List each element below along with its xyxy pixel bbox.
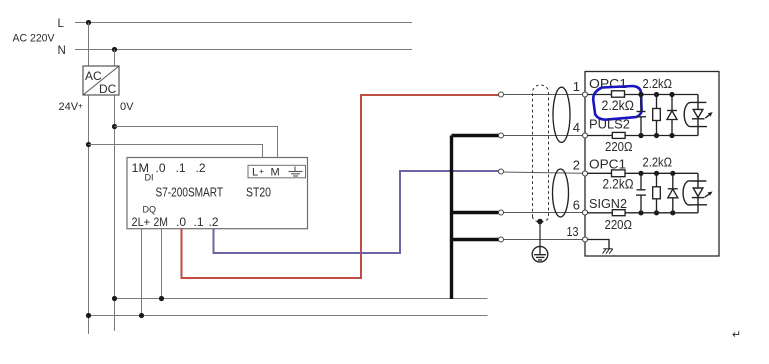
svg-text:AC 220V: AC 220V <box>13 33 56 45</box>
svg-text:N: N <box>58 45 66 57</box>
svg-text:L: L <box>252 167 258 179</box>
node 0V to M tap <box>112 124 117 129</box>
svg-text:2M: 2M <box>154 215 169 229</box>
converter AC/DC <box>83 66 119 96</box>
wire top rail pin2 <box>585 172 698 174</box>
connector circles mid-span <box>499 92 504 242</box>
svg-text:0V: 0V <box>120 101 134 113</box>
PLC S7-200SMART box <box>127 158 308 230</box>
svg-text:SIGN2: SIGN2 <box>589 196 627 211</box>
wire 2M down <box>161 229 163 299</box>
node 2L+ to bus <box>139 313 144 318</box>
node 2M to bus <box>159 296 164 301</box>
svg-text:.2: .2 <box>209 215 219 229</box>
svg-text:.2: .2 <box>196 161 206 175</box>
svg-text:2.2kΩ: 2.2kΩ <box>602 98 635 113</box>
wire bottom rail pin6 <box>585 212 698 214</box>
svg-text:DQ: DQ <box>143 205 157 215</box>
connector circles at drive box edge <box>583 92 588 242</box>
svg-text:+: + <box>259 166 264 176</box>
svg-text:2.2kΩ: 2.2kΩ <box>603 176 634 191</box>
wire 24V bottom bus <box>89 315 488 317</box>
svg-text:PULS2: PULS2 <box>589 117 630 132</box>
node 24V+ to L+ tap <box>86 142 91 147</box>
node 0V bus left <box>112 296 117 301</box>
PLC L+/M terminal box <box>248 165 306 178</box>
wire L line <box>75 22 412 24</box>
wire 24V+ vertical <box>88 95 90 334</box>
svg-text:.1: .1 <box>176 161 186 175</box>
resistor 2.2k series upper <box>612 91 625 97</box>
resistor 2.2k series lower <box>612 170 626 177</box>
wire N to converter <box>114 50 116 67</box>
svg-text:2L+: 2L+ <box>132 215 151 229</box>
wire 2L+ down <box>141 229 143 316</box>
svg-text:OPC1: OPC1 <box>589 76 627 91</box>
wire thick black to pin4 <box>452 134 499 137</box>
wire thick black to pin13 <box>452 238 499 241</box>
resistor 220 upper <box>612 132 625 138</box>
wire L to converter <box>88 23 90 67</box>
svg-text:220Ω: 220Ω <box>605 139 633 154</box>
node N junction <box>112 47 117 52</box>
svg-text:DI: DI <box>145 173 154 183</box>
svg-text:220Ω: 220Ω <box>605 217 633 232</box>
node shield drain <box>537 219 543 225</box>
capacitor lower <box>636 173 646 213</box>
node 24V bus left <box>86 313 91 318</box>
svg-text:13: 13 <box>567 224 579 239</box>
svg-text:DC: DC <box>99 82 117 96</box>
wire pin1 thin <box>504 94 583 96</box>
twisted pair ellipse lower <box>553 169 569 217</box>
svg-text:ST20: ST20 <box>246 185 271 200</box>
diode upper <box>667 95 677 136</box>
svg-text:.1: .1 <box>194 215 204 229</box>
optocoupler LED lower <box>683 173 713 213</box>
node dots lower <box>638 171 675 216</box>
svg-text:2.2kΩ: 2.2kΩ <box>643 154 673 169</box>
svg-text:+: + <box>78 101 83 111</box>
svg-text:.0: .0 <box>156 161 166 175</box>
wire 0V vertical <box>114 95 116 331</box>
capacitor upper <box>636 95 646 136</box>
chassis ground <box>603 249 613 254</box>
node L junction <box>86 20 91 25</box>
twisted pair ellipse upper <box>553 87 570 142</box>
svg-text:L: L <box>58 18 65 30</box>
svg-text:4: 4 <box>573 120 580 135</box>
svg-text:↵: ↵ <box>732 329 741 341</box>
svg-text:1: 1 <box>573 79 580 94</box>
wire thick black common vertical <box>450 136 453 300</box>
wire pin6 thin <box>504 212 583 214</box>
annotation blue circle <box>593 86 641 120</box>
wire 0V to PLC M <box>115 127 278 158</box>
wire pin13 thin <box>504 239 583 241</box>
wire pin4 thin <box>504 135 583 137</box>
resistor 2.2k shunt upper <box>653 95 661 136</box>
resistor 220 lower <box>612 210 625 216</box>
wire 0V bottom bus <box>115 298 488 300</box>
wire shield to PE <box>539 222 541 247</box>
node dots upper <box>638 92 674 138</box>
optocoupler LED upper <box>684 95 713 136</box>
svg-text:M: M <box>271 167 280 179</box>
wire bottom rail pin4 <box>585 135 698 137</box>
svg-text:.0: .0 <box>176 215 186 229</box>
wire purple DQ.2 to pin2 <box>214 171 499 253</box>
svg-text:2: 2 <box>573 158 580 173</box>
svg-text:2.2kΩ: 2.2kΩ <box>643 76 673 91</box>
diode lower <box>668 173 678 213</box>
wire top rail pin1 <box>585 94 698 96</box>
wire pin13 to chassis ground <box>588 240 610 249</box>
resistor 2.2k shunt lower <box>653 173 661 213</box>
protective earth symbol <box>532 246 548 262</box>
wire red DQ.0 to pin1 <box>182 95 499 278</box>
svg-text:AC: AC <box>85 69 102 83</box>
svg-text:S7-200SMART: S7-200SMART <box>156 185 224 200</box>
wire 24V+ to PLC L+ <box>89 145 263 158</box>
wire N line <box>75 49 412 51</box>
cable shield dashed ellipse <box>533 85 549 222</box>
svg-text:24V: 24V <box>59 101 79 113</box>
servo drive box <box>585 72 719 257</box>
wire pin2 thin <box>504 172 583 173</box>
wire thick black to pin6 <box>452 211 499 214</box>
PLC earth symbol <box>289 167 303 177</box>
svg-text:6: 6 <box>573 198 580 213</box>
